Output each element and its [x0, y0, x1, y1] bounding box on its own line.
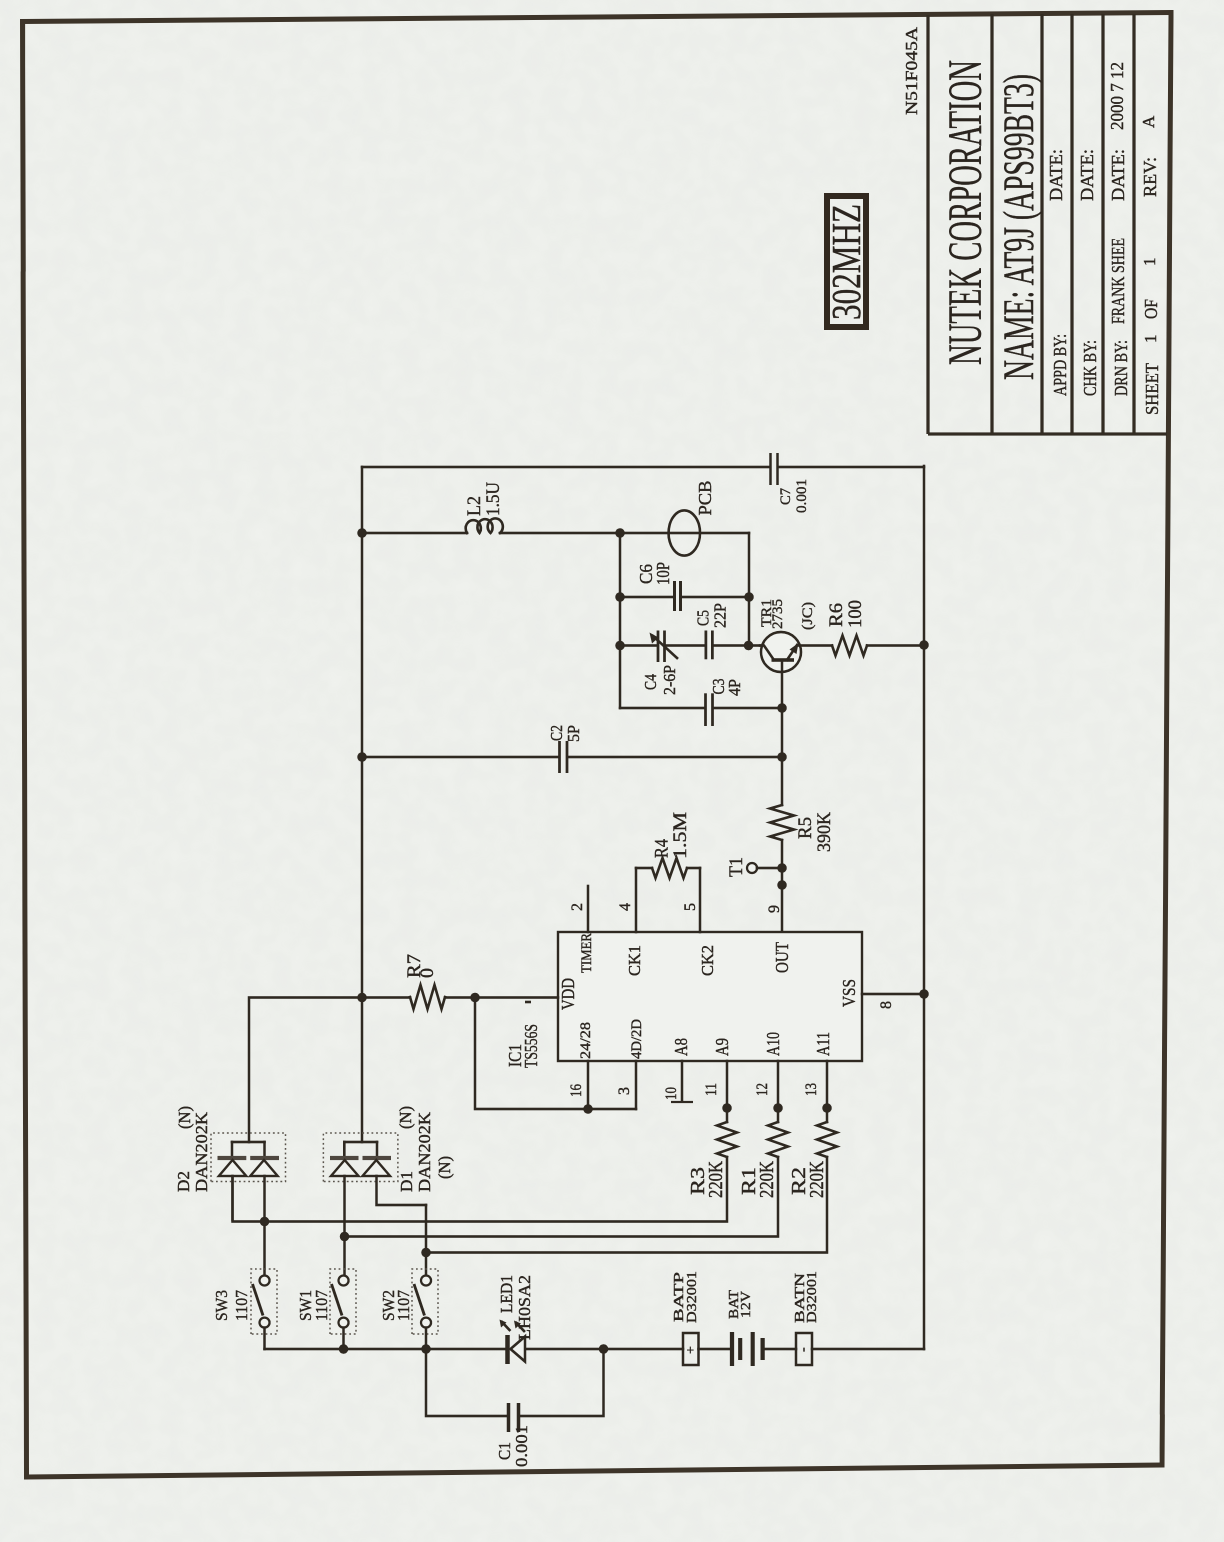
svg-text:0.001: 0.001: [794, 479, 810, 513]
svg-text:CK2: CK2: [698, 945, 717, 976]
capacitor C3: [620, 679, 782, 727]
inductor L2: [362, 482, 620, 533]
svg-text:A9: A9: [712, 1038, 732, 1056]
svg-text:0: 0: [417, 968, 438, 978]
svg-text:CK1: CK1: [625, 945, 644, 976]
svg-text:DATE:: DATE:: [1046, 149, 1066, 201]
svg-text:(JC): (JC): [800, 602, 816, 630]
svg-text:3: 3: [616, 1087, 633, 1095]
svg-text:2-6P: 2-6P: [660, 665, 679, 695]
svg-text:SW3: SW3: [212, 1290, 231, 1321]
pin 4 wire: [635, 868, 638, 932]
wire node A horizontal: [619, 533, 622, 708]
resistor R4 between pins 4 and 5: [636, 812, 700, 878]
svg-text:5: 5: [682, 903, 699, 911]
svg-text:A10: A10: [763, 1032, 783, 1056]
switch SW2: [379, 1269, 438, 1349]
svg-text:TS556S: TS556S: [521, 1024, 541, 1068]
svg-text:220K: 220K: [705, 1161, 727, 1198]
svg-text:220K: 220K: [756, 1161, 778, 1198]
capacitor C7: [771, 453, 811, 513]
svg-text:NUTEK CORPORATION: NUTEK CORPORATION: [939, 60, 992, 365]
capacitor C6: [620, 562, 749, 611]
capacitor C1 branch wires: [519, 1349, 604, 1416]
svg-text:TIMER: TIMER: [579, 933, 595, 973]
svg-text:(N): (N): [396, 1106, 415, 1129]
svg-text:12V: 12V: [739, 1291, 754, 1318]
wire D2 upper diode to R3 bus: [231, 1176, 234, 1220]
svg-text:5P: 5P: [564, 725, 583, 742]
svg-text:OUT: OUT: [772, 942, 792, 973]
svg-text:N51F045A: N51F045A: [902, 26, 921, 115]
svg-text:24/28: 24/28: [578, 1022, 594, 1059]
transistor TR1: [759, 599, 816, 932]
svg-text:L2: L2: [464, 496, 485, 516]
svg-text:8: 8: [878, 1001, 895, 1009]
pin 5 wire: [699, 868, 702, 932]
svg-text:0.001: 0.001: [512, 1425, 531, 1467]
wire bottom rail: [923, 466, 926, 1349]
svg-text:2: 2: [569, 903, 586, 911]
capacitor C5: [666, 603, 760, 659]
svg-text:10: 10: [663, 1087, 680, 1100]
pin 2 TIMER stub: [569, 886, 588, 932]
label 302MHZ box: [823, 196, 869, 327]
wire D1 lower diode jog to SW2: [377, 1176, 427, 1205]
title block outline: [928, 14, 1167, 434]
svg-text:A8: A8: [671, 1038, 691, 1056]
svg-text:1107: 1107: [394, 1290, 413, 1321]
svg-text:DRN BY:: DRN BY:: [1111, 340, 1131, 396]
svg-text:R6: R6: [826, 603, 847, 627]
wire node line to PCB: [620, 532, 749, 535]
wire VDD node to pins 16/3: [475, 998, 636, 1110]
svg-text:220K: 220K: [806, 1161, 828, 1198]
svg-text:FRANK SHEE: FRANK SHEE: [1108, 238, 1128, 324]
svg-text:1: 1: [1140, 258, 1159, 267]
wire right rail (lower segment below C7): [779, 466, 924, 469]
resistor R3 on pin 11: [233, 1061, 738, 1222]
capacitor C2: [362, 725, 782, 773]
svg-text:LH0SA2: LH0SA2: [515, 1275, 534, 1340]
svg-text:OF: OF: [1141, 299, 1161, 319]
svg-text:VDD: VDD: [558, 978, 578, 1010]
svg-text:D2: D2: [174, 1171, 193, 1192]
svg-text:1: 1: [1141, 335, 1160, 344]
svg-text:10P: 10P: [653, 562, 673, 585]
svg-text:D32001: D32001: [805, 1271, 820, 1323]
PCB pad: [669, 481, 715, 556]
dual diode D1 DAN202K: [323, 1106, 454, 1192]
IC IC1 TS556S: [505, 932, 862, 1068]
svg-text:D1: D1: [397, 1171, 416, 1192]
svg-text:R5: R5: [795, 817, 816, 839]
svg-text:VSS: VSS: [839, 979, 859, 1007]
pin 3 stub: [616, 1061, 636, 1109]
svg-text:1107: 1107: [232, 1290, 251, 1321]
svg-text:CHK BY:: CHK BY:: [1080, 340, 1100, 396]
svg-text:C7: C7: [778, 488, 794, 505]
svg-text:DAN202K: DAN202K: [192, 1111, 211, 1192]
dual diode D2 DAN202K: [174, 1106, 286, 1192]
svg-text:T1: T1: [726, 857, 747, 877]
svg-text:4P: 4P: [725, 679, 744, 696]
battery BAT 12V cells: [727, 1290, 763, 1366]
svg-text:+: +: [684, 1346, 699, 1354]
svg-text:APPD BY:: APPD BY:: [1050, 334, 1070, 396]
svg-text:DATE:: DATE:: [1108, 149, 1128, 201]
resistor R1 on pin 12: [345, 1061, 789, 1237]
resistor R2 on pin 13: [426, 1061, 837, 1253]
svg-text:D32001: D32001: [685, 1271, 700, 1323]
svg-text:DATE:: DATE:: [1077, 149, 1097, 201]
test point T1: [726, 857, 782, 877]
wire PCB corner across to C4/C5 line: [748, 533, 751, 646]
wire D2 lower diode to SW3: [263, 1176, 266, 1276]
capacitor C1: [495, 1403, 531, 1467]
svg-text:12: 12: [754, 1083, 771, 1096]
battery terminal BATN: [793, 1271, 820, 1365]
svg-text:22P: 22P: [711, 603, 730, 628]
battery terminal BATP: [672, 1271, 700, 1365]
svg-text:A: A: [1139, 115, 1158, 128]
svg-text:100: 100: [845, 600, 866, 628]
svg-text:LED1: LED1: [497, 1275, 516, 1313]
svg-text:9: 9: [766, 905, 783, 913]
svg-text:11: 11: [703, 1083, 720, 1096]
svg-text:1107: 1107: [312, 1290, 331, 1321]
svg-text:-: -: [796, 1347, 811, 1352]
svg-text:390K: 390K: [814, 812, 835, 852]
wire left rail segments: [265, 1348, 506, 1351]
wire R7 node up to D2: [249, 998, 362, 1143]
pin 16 stub: [568, 1061, 588, 1109]
svg-text:C4: C4: [641, 674, 660, 690]
pin 8 VSS wire: [862, 994, 924, 1009]
LED1: [497, 1275, 534, 1364]
svg-text:1.5U: 1.5U: [483, 482, 504, 516]
resistor R7: [362, 954, 558, 1009]
svg-text:302MHZ: 302MHZ: [823, 204, 869, 320]
svg-text:PCB: PCB: [695, 481, 715, 516]
svg-text:2000 7 12: 2000 7 12: [1107, 62, 1127, 130]
wire top rail: [361, 467, 364, 1142]
switch SW3: [212, 1269, 277, 1349]
svg-text:16: 16: [568, 1084, 585, 1097]
svg-text:SHEET: SHEET: [1142, 363, 1162, 415]
wire D1 upper diode to SW1: [343, 1176, 346, 1276]
svg-text:A11: A11: [813, 1032, 833, 1056]
pin 10 stub with tick: [663, 1061, 693, 1102]
svg-text:2735: 2735: [770, 599, 786, 629]
switch SW1: [296, 1269, 356, 1349]
svg-text:(N): (N): [435, 1156, 454, 1179]
variable capacitor C4: [620, 631, 679, 696]
resistor R5: [770, 805, 835, 852]
resistor R6: [798, 600, 924, 656]
svg-text:REV:: REV:: [1140, 157, 1160, 197]
wire right rail (upper segment above C7): [362, 466, 769, 469]
svg-text:NAME: AT9J (APS99BT3): NAME: AT9J (APS99BT3): [996, 74, 1043, 380]
svg-text:13: 13: [803, 1083, 820, 1096]
svg-text:4D/2D: 4D/2D: [629, 1019, 645, 1059]
svg-text:DAN202K: DAN202K: [415, 1111, 434, 1192]
svg-text:1.5M: 1.5M: [670, 812, 691, 859]
svg-text:4: 4: [617, 903, 634, 911]
